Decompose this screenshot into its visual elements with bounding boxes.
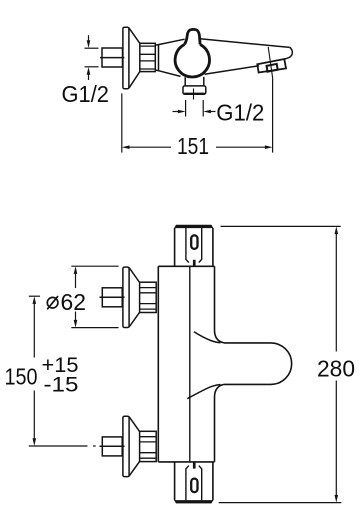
dimension 151: extension lines xyxy=(122,79,273,153)
svg-text:150: 150 xyxy=(5,363,38,389)
top handle (front view) xyxy=(175,228,213,266)
dimension 280: extension lines xyxy=(219,226,342,502)
shower outlet center line (top view) xyxy=(193,88,195,99)
top handle inner faces xyxy=(186,228,202,263)
aerator center line (top view) xyxy=(268,47,273,79)
top inlet center line xyxy=(100,296,125,298)
mixer body (front view) xyxy=(158,266,214,462)
svg-text:-15: -15 xyxy=(44,373,79,396)
wall flange cone (top view) xyxy=(129,28,140,88)
bottom handle indicator tick xyxy=(193,462,196,468)
dimension 150: ticks xyxy=(29,296,96,446)
spout blend fillet top (front view) xyxy=(194,332,221,343)
svg-text:62: 62 xyxy=(61,289,87,315)
knob safety button (top view) xyxy=(185,29,201,44)
valve body outline (top view) xyxy=(159,39,185,76)
shower outlet collar (top view) xyxy=(183,86,206,94)
top handle indicator tick xyxy=(193,260,196,266)
union nut (top view) xyxy=(140,43,156,71)
svg-text:G1/2: G1/2 xyxy=(62,81,110,107)
spout top edge (top view) xyxy=(200,39,290,48)
spout bottom edge (top view) xyxy=(205,66,259,75)
bottom inlet center line xyxy=(100,445,125,447)
top wall flange plate (front view) xyxy=(123,267,129,327)
dimension ø62: extension lines xyxy=(71,266,118,327)
control knob circle (top view) xyxy=(175,45,209,78)
dimension G1/2 inlet thread (top view) xyxy=(85,35,99,80)
top inlet nipple (front view) xyxy=(102,288,122,307)
bottom handle (front view) xyxy=(175,462,213,500)
inlet nipple (top view) xyxy=(102,48,123,67)
dimension G1/2 outlet: extension lines xyxy=(173,100,216,117)
bottom wall flange cone xyxy=(129,417,140,476)
bottom handle grip slot xyxy=(191,479,197,493)
bottom union nut (front view) xyxy=(140,431,157,461)
dimension 280: dimension line with arrows xyxy=(335,226,339,234)
aerator insert (top view) xyxy=(267,64,278,72)
top handle cap bar xyxy=(176,225,213,228)
bottom handle inner faces xyxy=(186,466,202,501)
body collar (top view) xyxy=(155,45,158,71)
bottom wall flange plate (front view) xyxy=(123,416,129,476)
dimension 151: dimension line with arrows xyxy=(122,145,130,149)
svg-text:G1/2: G1/2 xyxy=(216,99,264,125)
shower outlet collar dark band (top view) xyxy=(184,93,204,95)
bottom handle cap bar xyxy=(176,500,213,503)
spout tip beak (top view) xyxy=(284,47,292,59)
body right edge with spout junction (front view) xyxy=(215,266,225,462)
dimension ø62: dimension line with arrows xyxy=(74,266,78,274)
svg-text:151: 151 xyxy=(177,133,209,159)
bottom inlet nipple (front view) xyxy=(102,437,122,456)
top handle grip slot xyxy=(191,235,197,249)
shower outlet neck (top view) xyxy=(185,77,204,86)
top wall flange cone xyxy=(129,268,140,327)
label ø62: diameter symbol xyxy=(47,297,58,308)
dimension G1/2 outlet: arrows xyxy=(173,111,179,113)
spout blend fillet bottom (front view) xyxy=(187,385,220,399)
dimension 150: dimension line with arrows xyxy=(33,296,37,304)
top union nut (front view) xyxy=(140,282,157,312)
nipple center flat line (top view) xyxy=(100,57,124,59)
spout (front view) xyxy=(224,343,292,385)
aerator housing (top view) xyxy=(257,59,286,73)
svg-text:280: 280 xyxy=(317,356,355,382)
wall flange plate (top view) xyxy=(123,27,129,89)
body inner highlight line (front view) xyxy=(189,266,191,462)
